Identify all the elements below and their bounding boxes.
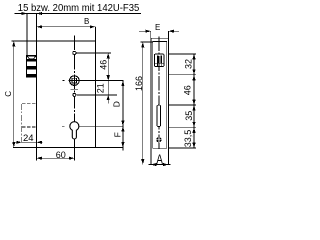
24 dim line: [15, 141, 43, 143]
svg-text:60: 60: [56, 150, 66, 160]
svg-text:32: 32: [183, 59, 193, 69]
E dim line left tail: [139, 30, 151, 32]
arrow D top: [121, 81, 124, 87]
screw hole: [156, 137, 161, 142]
arrow D bottom: [121, 121, 124, 127]
46b ext line bottom: [169, 104, 197, 106]
arrow 24 left: [16, 141, 22, 144]
svg-text:B: B: [84, 17, 89, 26]
spindle small hole top: [73, 51, 76, 54]
latch bevel bars: [157, 56, 158, 64]
166 dim line: [142, 42, 144, 165]
label 32: [183, 59, 193, 69]
label B: [84, 17, 89, 26]
166 ext line top: [141, 41, 153, 43]
label 33,5: [183, 130, 193, 148]
E ext lines: [150, 31, 152, 38]
arrow 166 bottom: [141, 159, 144, 165]
follower square: [72, 78, 77, 83]
arrow F top: [121, 126, 124, 132]
dashed line bottom of dashed box: [22, 126, 37, 128]
faceplate outer rect: [151, 38, 169, 164]
arrow 21 bottom outside: [107, 95, 110, 100]
svg-text:46: 46: [183, 85, 193, 95]
33,5 dim line: [193, 127, 195, 148]
60 dim line: [37, 157, 75, 159]
A dim line / faceplate bottom: [149, 164, 171, 166]
case right edge: [94, 27, 96, 148]
faceplate inner rect: [153, 42, 167, 149]
arrow 46 bottom: [107, 75, 110, 81]
B dim line: [37, 26, 96, 28]
46 dim line: [107, 53, 109, 81]
label 35: [184, 111, 194, 121]
label A: [156, 151, 163, 167]
svg-text:33,5: 33,5: [183, 130, 193, 148]
ext line from small hole: [76, 94, 117, 96]
arrow 15 left: [22, 12, 28, 15]
32 dim line: [193, 54, 195, 75]
vertical centerline: [73, 36, 75, 161]
svg-text:E: E: [155, 23, 160, 32]
label C: [4, 91, 13, 97]
arrow B right: [90, 25, 96, 28]
case top edge with C extension: [11, 40, 95, 42]
follower CL left dash: [63, 80, 65, 82]
label D: [112, 101, 122, 107]
46b dim line: [193, 75, 195, 105]
svg-text:F: F: [113, 132, 123, 137]
35 ext line bottom: [169, 126, 197, 128]
arrow 46 top: [107, 53, 110, 59]
32 ext line top: [169, 53, 197, 55]
arrow F bottom: [121, 142, 124, 148]
center tick below follower: [71, 88, 79, 90]
svg-text:35: 35: [184, 111, 194, 121]
ext line from top hole: [77, 52, 112, 54]
label F: [113, 132, 123, 137]
arrow C bottom: [12, 142, 15, 148]
svg-text:24: 24: [23, 133, 34, 144]
33,5 ext line bottom: [169, 147, 197, 149]
label E: [155, 23, 160, 32]
svg-text:21: 21: [95, 83, 105, 93]
60 dim ext left: [36, 148, 38, 161]
follower big circle: [70, 76, 80, 86]
dashed line top of dashed box: [22, 103, 37, 105]
E dim line right tail: [169, 30, 180, 32]
latch lower verticals: [157, 63, 159, 66]
latch cutout: [154, 54, 164, 67]
svg-text:A: A: [156, 151, 163, 167]
label 21: [95, 83, 105, 93]
arrow 32 top: [192, 54, 195, 60]
35 dim line: [193, 105, 195, 127]
svg-text:D: D: [112, 101, 122, 107]
small hole below follower: [73, 93, 76, 96]
32 ext line bottom: [169, 74, 197, 76]
arrow 35 top: [192, 105, 195, 111]
arrow 24 right: [37, 141, 43, 144]
arrow E left: [145, 30, 151, 33]
case bottom edge with extensions: [13, 147, 124, 149]
arrow 60 right: [69, 157, 75, 160]
svg-text:C: C: [4, 91, 13, 97]
arrow C top: [12, 41, 15, 47]
C dim line: [13, 41, 15, 148]
arrow 46b top: [192, 75, 195, 81]
arrow 32 bottom: [192, 69, 195, 75]
svg-text:46: 46: [99, 60, 109, 70]
label 60: [56, 150, 66, 160]
follower CL right / ext to D: [69, 80, 124, 82]
arrow 60 left: [37, 157, 43, 160]
arrow 21 top outside: [107, 76, 110, 81]
arrow A left: [151, 163, 157, 166]
arrow E right: [169, 30, 175, 33]
21 dim line: [107, 81, 109, 95]
vertical centerline faceplate: [158, 37, 160, 150]
arrow 46b bottom: [192, 100, 195, 106]
label 46b: [183, 85, 193, 95]
arrow B left: [37, 25, 43, 28]
arrow 35 bottom: [192, 122, 195, 128]
label 24: [23, 133, 34, 144]
svg-text:15 bzw. 20mm mit 142U-F35: 15 bzw. 20mm mit 142U-F35: [18, 3, 140, 14]
deadbolt slot: [157, 105, 161, 127]
label 46: [99, 60, 109, 70]
label 166: [134, 76, 144, 91]
svg-text:166: 166: [134, 76, 144, 91]
arrow 15 right: [37, 12, 43, 15]
dim line under title / 15 dim: [15, 13, 142, 15]
extension line latch front: [26, 14, 28, 56]
cylinder CL left dash: [62, 125, 64, 127]
latch horizontal line: [154, 62, 164, 64]
cylinder CL right ext: [79, 125, 123, 127]
arrow 33,5 bottom: [192, 143, 195, 149]
case front line / faceplate edge: [36, 14, 38, 149]
arrow 33,5 top: [192, 127, 195, 133]
D F dim line: [122, 81, 124, 151]
euro cylinder hole: [70, 122, 79, 139]
arrow A right: [163, 163, 169, 166]
latch bolt block: [27, 55, 37, 77]
arrow 166 top: [141, 42, 144, 48]
dash-dot left line of dashed box: [21, 104, 23, 143]
